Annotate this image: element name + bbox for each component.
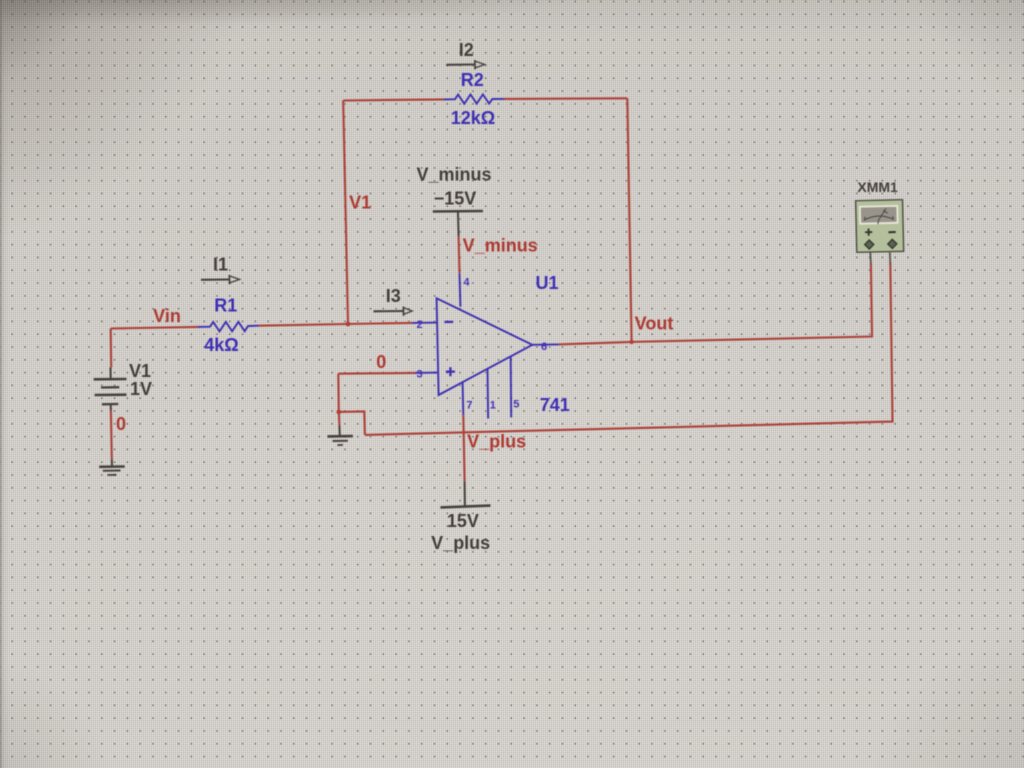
svg-text:V1: V1 xyxy=(349,193,371,213)
svg-text:1V: 1V xyxy=(130,379,152,399)
svg-text:12kΩ: 12kΩ xyxy=(451,108,495,128)
svg-text:0: 0 xyxy=(116,414,126,434)
svg-text:15V: 15V xyxy=(447,511,479,531)
svg-text:4kΩ: 4kΩ xyxy=(204,335,238,355)
svg-text:4: 4 xyxy=(463,277,470,289)
svg-text:R1: R1 xyxy=(214,295,237,315)
svg-text:I3: I3 xyxy=(386,286,401,306)
svg-text:2: 2 xyxy=(416,319,422,331)
svg-text:5: 5 xyxy=(513,399,519,411)
svg-text:XMM1: XMM1 xyxy=(857,179,898,195)
svg-text:V_minus: V_minus xyxy=(463,236,538,256)
svg-text:V1: V1 xyxy=(129,361,151,381)
svg-text:3: 3 xyxy=(416,369,422,381)
svg-text:I1: I1 xyxy=(213,255,228,275)
svg-text:V_minus: V_minus xyxy=(416,165,491,185)
svg-text:Vin: Vin xyxy=(153,306,181,326)
svg-text:Vout: Vout xyxy=(635,313,674,333)
svg-text:R2: R2 xyxy=(461,70,484,90)
svg-text:6: 6 xyxy=(541,341,547,353)
svg-text:V_plus: V_plus xyxy=(467,432,526,452)
svg-text:I2: I2 xyxy=(459,40,474,60)
svg-text:U1: U1 xyxy=(535,273,558,293)
svg-text:−15V: −15V xyxy=(434,188,477,208)
svg-text:V_plus: V_plus xyxy=(431,533,490,553)
svg-text:7: 7 xyxy=(466,400,472,412)
svg-text:0: 0 xyxy=(376,352,386,372)
svg-text:741: 741 xyxy=(540,395,570,415)
svg-text:1: 1 xyxy=(490,400,496,412)
